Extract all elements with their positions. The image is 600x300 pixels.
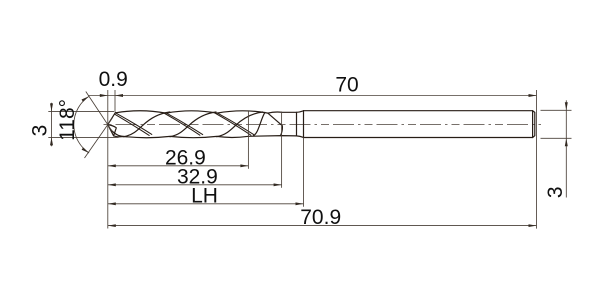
- dim line LH: [108, 203, 304, 205]
- ext line LH / shank start x303.5: [303, 138, 305, 207]
- svg-text:70.9: 70.9: [300, 206, 341, 229]
- arrow 70.9 right: [529, 224, 537, 227]
- dim line 32.9: [108, 184, 282, 186]
- dim line left 3: [51, 103, 53, 146]
- arrow left-3 top (outside, pointing down): [50, 103, 53, 111]
- drill tip point: [108, 113, 118, 137]
- 118-degree construction lines: [74, 92, 113, 159]
- arrow LH left: [108, 202, 116, 205]
- flute double edge 2: [164, 113, 203, 135]
- flute helix S-curve 4 (runout): [254, 112, 265, 135]
- angle line lower: [85, 118, 113, 158]
- arrow 70 right: [529, 94, 537, 97]
- dimension lines: [52, 96, 567, 226]
- flute double edge 1: [115, 113, 152, 135]
- dimension texts: [29, 68, 568, 229]
- flute top outline: [115, 111, 296, 113]
- arrow 70.9 left: [108, 224, 116, 227]
- svg-text:3: 3: [29, 125, 52, 137]
- arrow 26.9 right: [240, 164, 248, 167]
- centerline axis: [104, 124, 542, 126]
- neck transition: [297, 111, 304, 138]
- ext line 0.9 right x115: [114, 90, 116, 112]
- shank end cap: [533, 111, 535, 138]
- flute bottom outline: [118, 136, 297, 138]
- svg-text:118°: 118°: [56, 99, 79, 141]
- arrowheads: [50, 94, 568, 227]
- ext line 26.9 x248.4: [247, 111, 249, 169]
- arrow right-3 bottom (outside, pointing up): [565, 138, 568, 146]
- dim line right 3: [565, 100, 567, 197]
- angle line upper: [86, 92, 113, 132]
- svg-text:3: 3: [544, 186, 567, 198]
- ext line 32.9 x281.6: [281, 112, 283, 188]
- ext line right3 bottom: [541, 137, 572, 139]
- shank start edge: [303, 111, 305, 138]
- arrow 118-arc top: [82, 96, 90, 102]
- ext line left3 top: [48, 110, 114, 112]
- flute helix S-curve 2: [170, 112, 216, 137]
- shank outline: [304, 111, 533, 138]
- ext line tip x107.8: [107, 90, 109, 229]
- flute helix S-curve 1: [124, 112, 170, 137]
- ext line right end x536.5: [536, 90, 538, 229]
- arrow 118-arc bottom: [82, 147, 90, 153]
- arrow 32.9 right: [274, 183, 282, 186]
- tip lower flute arc: [110, 129, 124, 136]
- dim line 0.9 + 70: [89, 95, 537, 97]
- arrow left-3 bottom (outside, pointing up): [50, 137, 53, 145]
- flute helix S-curve 3: [217, 112, 263, 137]
- dim line 70.9: [108, 225, 537, 227]
- arrow 0.9 right / 70 left: [115, 94, 123, 97]
- arrow LH right: [296, 202, 304, 205]
- angle dimension arc: [74, 96, 89, 153]
- ext line right3 top: [541, 109, 572, 111]
- dim line 26.9: [108, 165, 249, 167]
- arrow right-3 top (outside, pointing down): [565, 102, 568, 110]
- arrow 0.9 left (outside): [100, 94, 108, 97]
- flute double edge 3: [215, 113, 254, 135]
- arrow 26.9 left: [108, 164, 116, 167]
- svg-text:70: 70: [335, 74, 358, 97]
- extension lines: [48, 90, 571, 229]
- arrow 32.9 left: [108, 183, 116, 186]
- svg-text:LH: LH: [191, 185, 218, 208]
- ext line left3 bottom: [48, 136, 118, 138]
- svg-text:0.9: 0.9: [99, 68, 128, 91]
- flute end runout: [268, 113, 283, 135]
- drill body outlines: [108, 111, 535, 138]
